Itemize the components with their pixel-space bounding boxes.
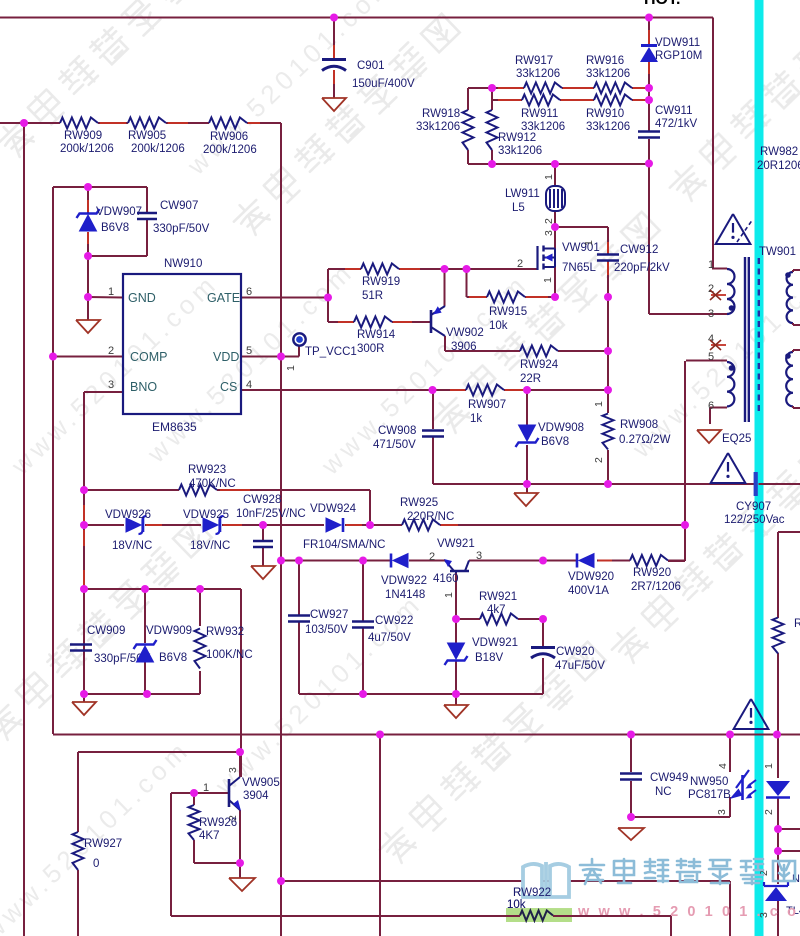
svg-text:RW918: RW918	[422, 108, 460, 120]
svg-text:10k: 10k	[489, 320, 508, 332]
svg-text:2: 2	[593, 457, 605, 463]
svg-text:122/250Vac: 122/250Vac	[724, 514, 785, 526]
svg-text:RW908: RW908	[620, 419, 658, 431]
svg-text:220R/NC: 220R/NC	[407, 511, 454, 523]
svg-text:RW927: RW927	[84, 838, 122, 850]
svg-text:1k: 1k	[470, 413, 482, 425]
svg-text:B18V: B18V	[475, 652, 503, 664]
svg-text:VDW925: VDW925	[183, 509, 229, 521]
svg-text:GATE: GATE	[207, 291, 240, 305]
svg-text:VDD: VDD	[213, 350, 239, 364]
svg-text:6: 6	[708, 400, 714, 412]
svg-text:2: 2	[517, 258, 523, 270]
svg-text:RW910: RW910	[586, 108, 624, 120]
svg-text:2R7/1206: 2R7/1206	[631, 581, 681, 593]
svg-text:B6V8: B6V8	[541, 436, 569, 448]
svg-text:CW927: CW927	[310, 609, 348, 621]
svg-text:1: 1	[203, 782, 209, 794]
svg-text:33k1206: 33k1206	[416, 121, 460, 133]
svg-text:400V1A: 400V1A	[568, 585, 609, 597]
svg-text:RW916: RW916	[586, 55, 624, 67]
svg-text:VDW907: VDW907	[96, 206, 142, 218]
svg-text:200k/1206: 200k/1206	[60, 143, 114, 155]
svg-text:RW906: RW906	[210, 131, 248, 143]
svg-text:33k1206: 33k1206	[586, 121, 630, 133]
svg-text:CW922: CW922	[375, 615, 413, 627]
svg-text:VDW922: VDW922	[381, 575, 427, 587]
svg-text:470K/NC: 470K/NC	[189, 478, 236, 490]
svg-text:1: 1	[443, 592, 455, 598]
svg-text:3: 3	[543, 230, 555, 236]
svg-text:RW926: RW926	[199, 817, 237, 829]
svg-text:0.27Ω/2W: 0.27Ω/2W	[619, 434, 671, 446]
svg-text:2: 2	[763, 809, 775, 815]
svg-text:CW908: CW908	[378, 425, 416, 437]
svg-text:B6V8: B6V8	[101, 222, 129, 234]
svg-text:3906: 3906	[451, 341, 477, 353]
svg-text:1: 1	[583, 240, 595, 246]
svg-text:CS: CS	[220, 380, 237, 394]
svg-text:51R: 51R	[362, 290, 383, 302]
svg-text:RW920: RW920	[633, 567, 671, 579]
svg-text:RW921: RW921	[479, 591, 517, 603]
svg-text:33k1206: 33k1206	[516, 68, 560, 80]
svg-text:3: 3	[227, 767, 239, 773]
svg-text:20R1206: 20R1206	[757, 160, 800, 172]
svg-text:C901: C901	[357, 60, 385, 72]
svg-text:3: 3	[108, 379, 114, 391]
svg-text:NC: NC	[655, 786, 672, 798]
svg-text:103/50V: 103/50V	[305, 624, 348, 636]
svg-text:0: 0	[93, 858, 99, 870]
svg-text:VDW924: VDW924	[310, 503, 357, 515]
svg-text:RW917: RW917	[515, 55, 553, 67]
svg-text:300R: 300R	[357, 343, 385, 355]
svg-text:471/50V: 471/50V	[373, 439, 416, 451]
svg-text:RW932: RW932	[206, 626, 244, 638]
svg-text:3: 3	[476, 550, 482, 562]
svg-text:HOT.: HOT.	[644, 0, 680, 8]
svg-text:VDW920: VDW920	[568, 571, 614, 583]
svg-text:LW911: LW911	[505, 188, 540, 200]
svg-text:3904: 3904	[243, 790, 269, 802]
svg-text:1: 1	[708, 259, 714, 271]
svg-text:33k1206: 33k1206	[586, 68, 630, 80]
svg-text:VW921: VW921	[437, 538, 475, 550]
svg-text:100K/NC: 100K/NC	[206, 649, 253, 661]
svg-text:4160: 4160	[433, 573, 459, 585]
svg-text:VDW911: VDW911	[655, 37, 700, 49]
svg-text:18V/NC: 18V/NC	[112, 540, 152, 552]
svg-text:472/1kV: 472/1kV	[655, 118, 698, 130]
svg-text:3: 3	[708, 308, 714, 320]
svg-text:RGP10M: RGP10M	[655, 50, 702, 62]
svg-text:22R: 22R	[520, 373, 541, 385]
svg-text:2: 2	[429, 551, 435, 563]
svg-text:47uF/50V: 47uF/50V	[555, 660, 605, 672]
svg-text:18V/NC: 18V/NC	[190, 540, 230, 552]
svg-text:EM8635: EM8635	[152, 420, 197, 434]
svg-text:200k/1206: 200k/1206	[131, 143, 185, 155]
svg-text:5: 5	[708, 351, 714, 363]
svg-text:5: 5	[246, 345, 252, 357]
svg-text:4: 4	[717, 763, 729, 769]
svg-text:RW914: RW914	[357, 329, 396, 341]
svg-text:CY907: CY907	[736, 501, 771, 513]
svg-text:33k1206: 33k1206	[498, 145, 542, 157]
svg-text:CW909: CW909	[87, 625, 125, 637]
svg-text:TW901: TW901	[759, 246, 796, 258]
svg-text:GND: GND	[128, 291, 156, 305]
svg-text:COMP: COMP	[130, 350, 168, 364]
svg-text:R: R	[794, 618, 800, 630]
svg-text:CW907: CW907	[160, 200, 198, 212]
svg-text:1: 1	[593, 401, 605, 407]
svg-text:6: 6	[246, 286, 252, 298]
svg-text:CW912: CW912	[620, 244, 658, 256]
svg-text:RW905: RW905	[128, 130, 166, 142]
svg-text:RW922: RW922	[513, 887, 551, 899]
svg-text:VW902: VW902	[446, 327, 484, 339]
svg-text:VDW908: VDW908	[538, 422, 584, 434]
svg-text:NW910: NW910	[164, 258, 202, 270]
svg-text:RW912: RW912	[498, 132, 536, 144]
svg-text:PC817B: PC817B	[688, 789, 731, 801]
svg-text:7N65L: 7N65L	[562, 262, 596, 274]
svg-text:VW905: VW905	[242, 777, 280, 789]
svg-text:RW982: RW982	[760, 146, 798, 158]
svg-text:10nF/25V/NC: 10nF/25V/NC	[236, 508, 306, 520]
svg-text:RW919: RW919	[362, 276, 400, 288]
svg-text:CW928: CW928	[243, 494, 281, 506]
svg-text:2: 2	[108, 345, 114, 357]
svg-text:4k7: 4k7	[487, 604, 506, 616]
svg-text:2: 2	[543, 218, 555, 224]
svg-text:1: 1	[763, 763, 775, 769]
svg-text:RW923: RW923	[188, 464, 226, 476]
svg-text:1: 1	[542, 277, 554, 283]
svg-text:330pF/50V: 330pF/50V	[153, 223, 210, 235]
svg-text:220pF/2kV: 220pF/2kV	[614, 262, 670, 274]
svg-text:FR104/SMA/NC: FR104/SMA/NC	[303, 539, 385, 551]
svg-text:BNO: BNO	[130, 380, 157, 394]
svg-text:200k/1206: 200k/1206	[203, 144, 257, 156]
svg-text:4: 4	[246, 379, 252, 391]
svg-text:CW949: CW949	[650, 772, 688, 784]
svg-text:RW924: RW924	[520, 359, 559, 371]
svg-text:3: 3	[716, 809, 728, 815]
svg-text:150uF/400V: 150uF/400V	[352, 78, 415, 90]
svg-text:NW950: NW950	[690, 776, 728, 788]
svg-text:1: 1	[108, 286, 114, 298]
svg-text:RW915: RW915	[489, 306, 527, 318]
svg-text:CW911: CW911	[655, 105, 693, 117]
svg-text:1N4148: 1N4148	[385, 589, 425, 601]
svg-text:1: 1	[543, 174, 555, 180]
svg-text:RW925: RW925	[400, 497, 438, 509]
svg-text:L5: L5	[512, 202, 525, 214]
svg-text:TP_VCC1: TP_VCC1	[305, 346, 357, 358]
svg-text:CW920: CW920	[556, 646, 594, 658]
svg-text:RW909: RW909	[64, 130, 102, 142]
svg-text:VDW921: VDW921	[472, 637, 518, 649]
svg-text:4u7/50V: 4u7/50V	[368, 632, 411, 644]
svg-text:VDW926: VDW926	[105, 509, 151, 521]
svg-text:w w w . 5 2 0 1 0 1 . c o m: w w w . 5 2 0 1 0 1 . c o m	[577, 904, 800, 920]
svg-text:EQ25: EQ25	[722, 433, 751, 445]
svg-text:VDW909: VDW909	[146, 625, 192, 637]
svg-text:4K7: 4K7	[199, 830, 219, 842]
svg-text:B6V8: B6V8	[159, 652, 187, 664]
svg-text:10k: 10k	[507, 899, 526, 911]
svg-text:1: 1	[285, 365, 297, 371]
svg-text:RW911: RW911	[521, 108, 558, 120]
svg-text:RW907: RW907	[468, 399, 506, 411]
